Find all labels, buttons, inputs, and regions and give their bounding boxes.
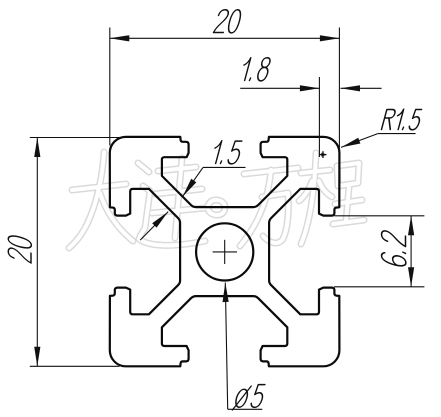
dim 1.8 extension line bbox=[318, 77, 320, 157]
watermark bbox=[69, 152, 364, 248]
dim top 20 text bbox=[213, 10, 242, 33]
R1.5 text bbox=[381, 109, 422, 130]
dim 6.2 line bbox=[410, 216, 412, 287]
dim 1.8 line left part bbox=[240, 87, 319, 89]
dia5 text bbox=[232, 385, 266, 410]
dim top 20 extension lines bbox=[109, 28, 111, 146]
1.5 text bbox=[211, 141, 243, 164]
R1.5 leader bbox=[341, 134, 378, 148]
dim top 20 line bbox=[110, 37, 340, 39]
dim left 20 text bbox=[8, 234, 31, 263]
dim left 20 extension lines bbox=[30, 137, 125, 139]
dim 6.2 extension lines bbox=[335, 215, 425, 217]
1.5 leader bbox=[183, 167, 203, 196]
dim left 20 line bbox=[36, 138, 38, 367]
dim 1.8 text bbox=[240, 58, 272, 81]
R1.5 center mark bbox=[320, 154, 327, 156]
dia5 leader bbox=[225, 283, 227, 410]
dim 1.8 line right part bbox=[341, 87, 382, 89]
center hole bbox=[196, 223, 253, 280]
profile outline bbox=[110, 137, 340, 366]
crosshair bbox=[213, 251, 237, 253]
dim 6.2 text bbox=[382, 230, 406, 268]
1.5 second arrow bbox=[140, 212, 168, 241]
